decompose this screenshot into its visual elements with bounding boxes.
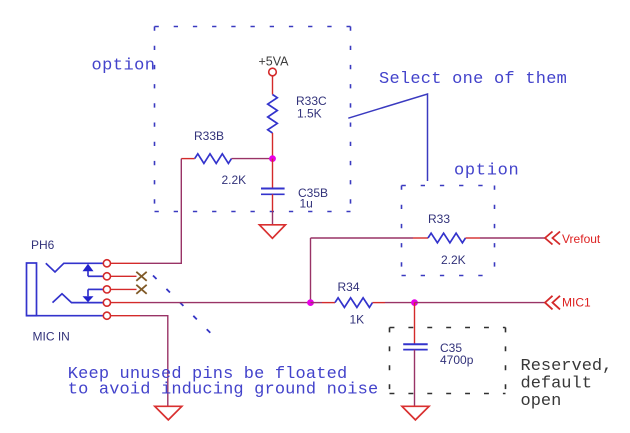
svg-text:open: open — [521, 392, 562, 411]
junction node R33C/R33B/C35B — [269, 155, 276, 162]
svg-text:PH6: PH6 — [31, 238, 55, 252]
pin 3 — [103, 286, 110, 293]
wire pin2 stub — [111, 275, 137, 277]
svg-text:Vrefout: Vrefout — [562, 232, 601, 246]
wire R33B left lead — [181, 158, 194, 160]
arrow up (tip wiper) — [83, 264, 104, 277]
wire pin3 stub — [111, 288, 137, 290]
wire segment to ground dark — [272, 211, 274, 225]
wire pin1 stub — [111, 262, 141, 264]
jack sleeve line — [27, 315, 104, 317]
svg-text:option: option — [92, 57, 156, 76]
resistor R33 — [428, 233, 466, 243]
svg-text:R33: R33 — [428, 212, 450, 226]
wire R33 left lead — [413, 237, 428, 239]
wire vertical node to R33 net — [310, 238, 312, 303]
port chevron MIC1 — [545, 296, 560, 310]
svg-text:default: default — [521, 375, 592, 394]
svg-text:Select one of them: Select one of them — [379, 70, 567, 89]
svg-text:MIC1: MIC1 — [562, 296, 591, 310]
wire junction to R34 — [311, 302, 323, 304]
jack ring contact — [53, 294, 104, 303]
pin 2 — [103, 273, 110, 280]
svg-text:Reserved,: Reserved, — [521, 357, 613, 376]
ground below pin5 — [155, 406, 182, 420]
no-connect X pin3 — [136, 285, 146, 294]
wire junction down to C35 — [414, 303, 416, 345]
wire pin4 stub — [111, 302, 141, 304]
pointer line — [348, 94, 427, 181]
wire R34 right lead — [373, 302, 386, 304]
svg-text:to avoid inducing ground noise: to avoid inducing ground noise — [68, 381, 379, 400]
junction node R34 left — [307, 299, 314, 306]
connector PH6 jack body — [27, 263, 37, 316]
capacitor C35 — [403, 344, 428, 349]
resistor R33B — [195, 154, 232, 164]
svg-text:1u: 1u — [300, 196, 313, 210]
reserved box (dashed) — [390, 328, 506, 394]
pin 1 — [103, 260, 110, 267]
pin 5 — [103, 312, 110, 319]
dashed pointer diagonal — [153, 276, 213, 336]
svg-text:4700p: 4700p — [440, 353, 474, 367]
wire horizontal to R33 — [311, 237, 414, 239]
wire junction to MIC1 — [415, 302, 546, 304]
wire node to C35B — [272, 159, 274, 189]
ground below C35B — [259, 225, 285, 239]
svg-text:option: option — [454, 161, 519, 180]
wire R33B right lead to node — [232, 158, 273, 160]
pin 4 — [103, 299, 110, 306]
power terminal +5VA — [269, 68, 277, 76]
svg-text:1K: 1K — [350, 313, 365, 327]
jack tip contact — [46, 263, 103, 272]
capacitor C35B — [261, 189, 285, 195]
no-connect X pin2 — [136, 272, 146, 281]
option box 2 (dashed) — [402, 186, 495, 276]
svg-text:2.2K: 2.2K — [222, 173, 247, 187]
wire C35 to ground — [414, 350, 416, 407]
resistor R33C — [268, 95, 278, 134]
svg-text:1.5K: 1.5K — [297, 106, 322, 120]
wire R34 to junction 2 — [385, 302, 415, 304]
wire pin5 to ground — [140, 316, 168, 406]
junction node C35 — [411, 299, 418, 306]
svg-text:R34: R34 — [338, 280, 360, 294]
svg-text:2.2K: 2.2K — [441, 253, 466, 267]
wire C35B to ground — [272, 194, 274, 211]
wire R33 right lead — [466, 237, 481, 239]
port chevron Vrefout — [545, 232, 560, 245]
option box 1 (dashed) — [155, 27, 351, 212]
svg-text:+5VA: +5VA — [259, 55, 290, 69]
wire R34 left lead — [322, 302, 335, 304]
wire +5VA to R33C — [272, 76, 274, 95]
ground below C35 — [402, 406, 429, 420]
resistor R34 — [335, 298, 373, 308]
wire pin5 stub — [111, 315, 141, 317]
wire R33 to Vrefout — [480, 237, 545, 239]
svg-text:R33B: R33B — [194, 129, 224, 143]
wire R33C to node — [272, 133, 274, 159]
arrow down (ring wiper) — [83, 289, 104, 302]
wire MIC net to junction — [140, 302, 311, 304]
wire pin1 to R33B — [140, 159, 181, 264]
svg-text:MIC IN: MIC IN — [33, 329, 70, 343]
